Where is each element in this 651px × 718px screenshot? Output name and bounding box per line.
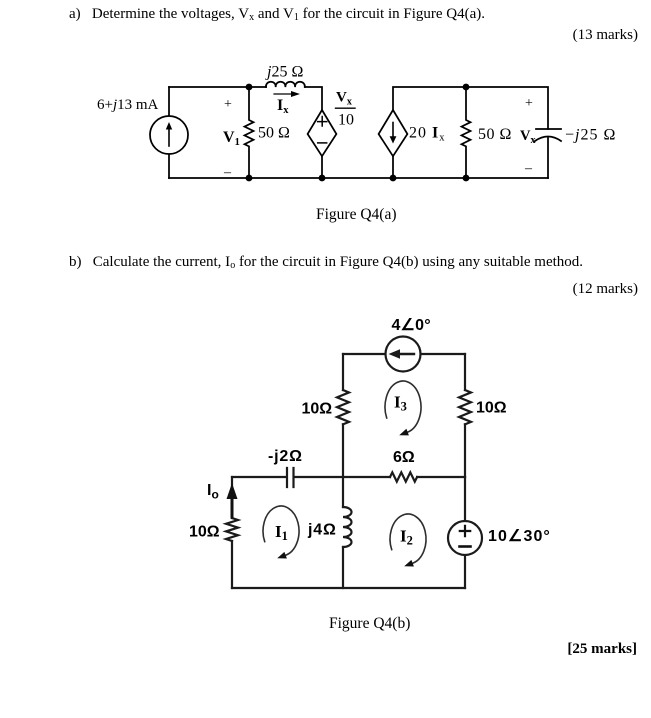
dependent source diamond 20Ix [379, 110, 408, 156]
wire: top-right vertical lower [464, 424, 466, 477]
marks (13 marks) [573, 27, 638, 44]
svg-text:50 Ω: 50 Ω [258, 125, 290, 142]
svg-text:+: + [224, 97, 232, 112]
svg-text:10Ω: 10Ω [302, 401, 333, 418]
svg-text:V1: V1 [223, 129, 240, 148]
svg-text:−j25 Ω: −j25 Ω [565, 127, 616, 144]
circuit Q4(a) [0, 50, 651, 200]
svg-text:10Ω: 10Ω [189, 524, 220, 541]
svg-text:Ix: Ix [277, 97, 289, 116]
wire: top-right vertical upper [464, 354, 466, 390]
svg-text:+: + [525, 96, 533, 111]
svg-text:50 Ω: 50 Ω [478, 126, 512, 143]
voltage source plus [460, 526, 470, 536]
mesh arrowhead I1 [277, 552, 287, 559]
node dots [246, 84, 470, 182]
fraction bar [336, 107, 356, 109]
wire: right vertical below source [464, 556, 466, 588]
svg-text:Vx: Vx [336, 90, 352, 108]
wire: diamond1 bottom stub [321, 156, 323, 178]
wire: top [343, 353, 465, 355]
Io arrow [227, 483, 238, 517]
mesh arrowhead I2 [404, 560, 414, 567]
question text b) [69, 254, 583, 271]
wire: cap branch bottom [547, 138, 549, 178]
caption Figure Q4(b) [329, 615, 410, 633]
wire: left vertical lower [231, 541, 233, 588]
mesh arc I1 [263, 506, 299, 555]
resistor 50ohm branch V1 [245, 87, 254, 178]
wire: middle horizontal left [232, 476, 286, 478]
resistor 6ohm [390, 472, 417, 481]
svg-text:6+j13 mA: 6+j13 mA [97, 97, 159, 113]
resistor 10ohm top-right [459, 390, 471, 424]
svg-text:j4Ω: j4Ω [307, 522, 337, 539]
current source 4ang0 circle [386, 337, 421, 372]
marks total [25 marks] [567, 641, 637, 658]
diamond1 plus [318, 117, 327, 127]
svg-text:I1: I1 [275, 522, 288, 543]
wire: top left section [169, 86, 266, 88]
diamond1 minus [318, 142, 327, 144]
wire: middle horizontal right [417, 476, 465, 478]
capacitor curved plate [535, 137, 561, 142]
svg-text:-j2Ω: -j2Ω [268, 448, 303, 465]
current source circle [150, 116, 188, 154]
wire: top right section [393, 87, 548, 129]
svg-text:I3: I3 [394, 393, 407, 414]
question text a) [69, 6, 485, 23]
caption Figure Q4(a) [316, 206, 397, 224]
svg-text:Vx: Vx [520, 128, 535, 146]
svg-text:I2: I2 [400, 527, 413, 548]
mesh arc I3 [385, 381, 421, 432]
wire: middle horizontal center [294, 476, 390, 478]
dependent source diamond Vx/10 [308, 110, 337, 156]
wire: top-left vertical lower [342, 424, 344, 477]
wire: middle vertical lower [342, 547, 344, 588]
wire: left branch [168, 87, 170, 178]
svg-text:10Ω: 10Ω [476, 400, 507, 417]
mesh arrowhead I3 [399, 429, 409, 436]
inductor j4 coil [343, 507, 352, 547]
wire: bottom [232, 587, 465, 589]
svg-text:–: – [524, 161, 533, 176]
mesh arc I2 [390, 514, 426, 563]
resistor 10ohm bottom-left [226, 518, 238, 541]
wire: top-left vertical upper [342, 354, 344, 390]
wire: diamond2 bottom stub [392, 156, 394, 178]
capacitor top plate [536, 128, 561, 130]
current source arrow [166, 122, 172, 146]
resistor 10ohm top-left [337, 390, 349, 424]
svg-text:j25 Ω: j25 Ω [265, 64, 303, 81]
svg-text:6Ω: 6Ω [393, 449, 415, 466]
wire: right vertical to source [464, 477, 466, 522]
inductor j4 coil wire [342, 477, 344, 507]
svg-text:Io: Io [207, 482, 219, 502]
Ix arrow [274, 91, 300, 97]
wire: top to diamond1 [305, 87, 322, 109]
resistor 50ohm branch 2 [462, 87, 471, 178]
diamond2 internal arrow [390, 123, 397, 144]
svg-text:20 Ix: 20 Ix [409, 125, 445, 144]
marks (12 marks) [573, 281, 638, 298]
svg-text:–: – [223, 165, 232, 180]
svg-text:10∠30°: 10∠30° [488, 528, 551, 545]
wire: left vertical upper [231, 477, 233, 518]
voltage source minus [460, 545, 471, 548]
inductor j25ohm [266, 82, 305, 87]
voltage source 10ang30 circle [448, 521, 482, 555]
svg-text:4∠0°: 4∠0° [392, 317, 431, 334]
current source arrow left [389, 349, 415, 359]
capacitor -j2 plates [287, 468, 294, 487]
circuit Q4(b) [0, 305, 651, 605]
wire: bottom [169, 177, 548, 179]
svg-text:10: 10 [338, 112, 354, 129]
